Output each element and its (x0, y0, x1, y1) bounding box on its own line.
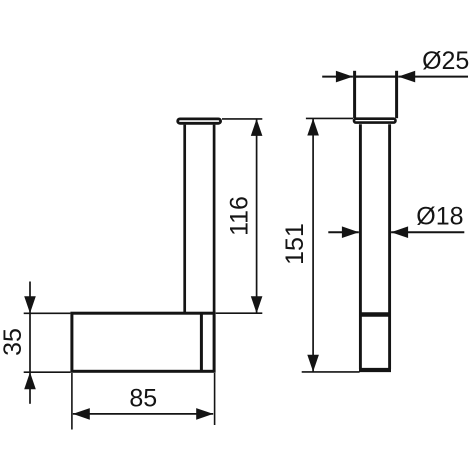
svg-text:151: 151 (281, 223, 309, 265)
dim 116 extension line bottom (216, 312, 263, 314)
left view arm inner edge line (200, 314, 203, 370)
dim 116 dimension line (256, 119, 258, 313)
dim 151 dimension line (312, 119, 314, 372)
right view cap left side (353, 71, 356, 118)
dim 35 extension line top (24, 312, 71, 314)
dim O25 arrow left-pointing (398, 71, 415, 83)
left view tube left wire (183, 125, 186, 313)
dim 85 dimension line (73, 413, 213, 415)
dim 85 extension line right (214, 373, 216, 425)
right view cap top edge (353, 75, 398, 77)
dim 35 extension line bottom (24, 371, 71, 373)
left view tube right wire (213, 125, 216, 313)
right view cap right side (395, 71, 398, 118)
dim 151 arrow down (307, 355, 319, 372)
dim 35 arrow down (above, pointing to top ext) (24, 296, 36, 313)
dim 116 extension line top (222, 118, 262, 120)
dim 85 arrow right (196, 408, 213, 420)
dim O18 arrow left-pointing (391, 226, 408, 238)
dim 151 extension line bottom (302, 371, 360, 373)
dim O18 line right tail (391, 231, 464, 233)
dim O18 arrow right-pointing (342, 226, 359, 238)
right view flange bar (354, 119, 396, 123)
svg-text:116: 116 (225, 196, 253, 236)
left view horizontal arm box (72, 313, 214, 371)
right view bottom edge (359, 368, 391, 372)
right view tube right wire (388, 124, 391, 369)
svg-text:35: 35 (0, 328, 27, 356)
dim 35 arrow up (below, pointing to bottom ext) (24, 372, 36, 389)
dim 35 dimension line (29, 282, 31, 404)
svg-text:85: 85 (129, 384, 157, 412)
svg-text:Ø25: Ø25 (422, 47, 469, 75)
right view tube left wire (359, 124, 362, 369)
dim 85 extension line left (71, 373, 73, 430)
dim 151 extension line top (306, 117, 353, 119)
dim 151 arrow up (307, 119, 319, 136)
dim 85 arrow left (73, 408, 90, 420)
left view cap (top mounting plate) (178, 119, 221, 123)
dim 116 arrow up (251, 119, 263, 136)
dim O25 arrow right-pointing (336, 71, 353, 83)
right view divider line (359, 312, 391, 317)
svg-text:Ø18: Ø18 (416, 203, 463, 231)
dim O25 line left tail (322, 76, 353, 78)
dim 116 arrow down (251, 296, 263, 313)
dim O25 line right tail (398, 76, 468, 78)
dim O18 line left tail (328, 231, 359, 233)
